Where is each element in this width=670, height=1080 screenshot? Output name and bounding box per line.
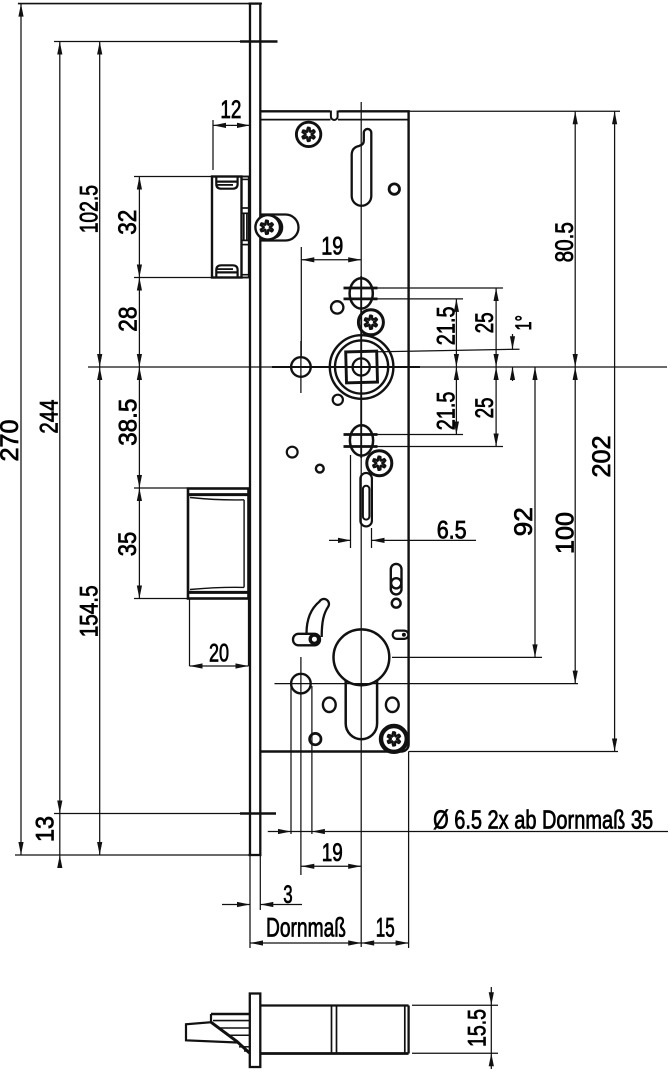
keyhole slot upper — [352, 129, 372, 206]
latch adjusting screw with cylinder — [261, 215, 299, 241]
svg-text:32: 32 — [114, 210, 142, 235]
svg-text:100: 100 — [551, 512, 579, 554]
case inner top edge — [260, 119, 408, 121]
bottom view: case body — [260, 1006, 408, 1054]
bottom view: faceplate bar — [250, 994, 260, 1068]
euro profile cylinder hole — [334, 629, 390, 685]
svg-text:92: 92 — [510, 507, 538, 536]
svg-text:Ø 6.5 2x ab Dornmaß 35: Ø 6.5 2x ab Dornmaß 35 — [433, 805, 653, 835]
svg-text:20: 20 — [209, 640, 229, 668]
small horizontal slot at case edge — [393, 631, 409, 639]
lock case outline — [260, 111, 408, 751]
svg-text:6.5: 6.5 — [437, 517, 467, 545]
svg-text:102.5: 102.5 — [75, 185, 103, 233]
svg-text:3: 3 — [283, 881, 292, 909]
latch bottom pocket — [216, 265, 237, 277]
small ring below slot — [392, 599, 401, 608]
small slot with circle (right, mid) — [391, 564, 402, 595]
latch bolt front view — [212, 177, 242, 278]
svg-text:25: 25 — [471, 398, 499, 419]
svg-text:244: 244 — [36, 400, 64, 434]
svg-text:154.5: 154.5 — [76, 585, 104, 637]
small circles on case — [389, 184, 399, 194]
svg-text:13: 13 — [32, 816, 60, 842]
latch neck / guide — [242, 177, 249, 278]
svg-text:21.5: 21.5 — [432, 392, 460, 431]
centerline emphasis near spindle — [272, 366, 420, 368]
lower adjustable hole (oval) — [350, 425, 373, 455]
svg-text:1°: 1° — [511, 315, 536, 331]
svg-text:19: 19 — [322, 839, 343, 867]
case top notch — [331, 111, 338, 120]
svg-text:25: 25 — [471, 312, 499, 333]
svg-text:28: 28 — [115, 307, 143, 332]
svg-text:35: 35 — [114, 532, 142, 556]
upper adjustable hole (oval) — [350, 278, 373, 308]
svg-text:202: 202 — [588, 436, 616, 478]
bottom view: latch head — [186, 1014, 250, 1053]
svg-text:12: 12 — [220, 96, 241, 124]
latch top pocket — [216, 177, 237, 189]
svg-text:15.5: 15.5 — [464, 1009, 492, 1047]
svg-text:80.5: 80.5 — [551, 222, 579, 262]
narrow slot below lower screw — [360, 473, 372, 527]
svg-text:15: 15 — [376, 912, 395, 942]
svg-text:Dornmaß: Dornmaß — [266, 912, 346, 942]
faceplate (Stulp) front view — [249, 4, 262, 855]
svg-text:19: 19 — [321, 233, 343, 261]
svg-text:270: 270 — [0, 420, 24, 462]
svg-text:38.5: 38.5 — [115, 399, 143, 446]
svg-text:21.5: 21.5 — [432, 306, 460, 345]
spindle follower (nut) — [330, 335, 394, 399]
fixing drill holes with crosshairs — [291, 357, 311, 377]
deadbolt front view — [188, 489, 249, 599]
spring lever — [307, 599, 329, 637]
torx screws — [296, 122, 320, 146]
